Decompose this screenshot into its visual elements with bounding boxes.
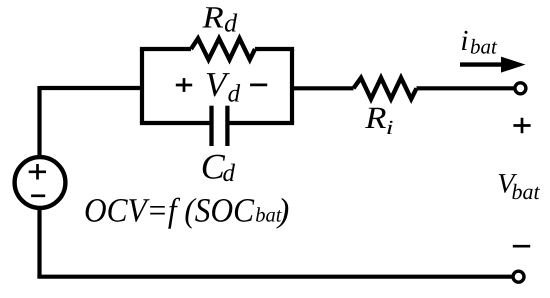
wire left vertical lower (source bottom to bottom rail) (37, 208, 41, 277)
voltage source circle (15, 157, 66, 208)
wire left vertical upper (rail down to source top) (37, 86, 41, 158)
svg-text:i: i (386, 117, 394, 139)
svg-text:V: V (205, 65, 230, 104)
positive terminal circle (515, 83, 526, 94)
label plus of Vd (176, 78, 192, 92)
svg-text:d: d (228, 81, 241, 108)
label minus of Vd (250, 84, 267, 87)
RC box left edge wire (140, 49, 144, 123)
negative terminal circle (513, 271, 524, 282)
wire box top-left segment (140, 47, 191, 51)
resistor Rd zigzag (191, 38, 255, 59)
svg-text:bat: bat (512, 179, 541, 204)
wire top-left horizontal (source top to RC box) (40, 86, 143, 90)
voltage source minus sign (31, 194, 45, 197)
svg-text:d: d (223, 160, 236, 187)
capacitor Cd left plate (209, 106, 213, 146)
resistor Ri zigzag (354, 78, 417, 99)
wire bottom rail (37, 275, 512, 279)
wire box bottom-left segment (140, 121, 210, 125)
wire Ri to positive terminal (417, 86, 514, 90)
svg-text:OCV=f (SOC: OCV=f (SOC (84, 193, 254, 230)
svg-text:): ) (276, 193, 289, 230)
current arrow i_bat (460, 62, 503, 66)
svg-text:i: i (460, 25, 468, 57)
wire box bottom-right segment (229, 121, 294, 125)
RC box right edge wire (290, 49, 294, 123)
label plus at battery terminal (513, 118, 530, 133)
voltage source plus sign (29, 164, 46, 180)
svg-text:d: d (224, 9, 238, 38)
label minus at battery terminal (513, 245, 530, 248)
svg-text:bat: bat (470, 34, 498, 58)
svg-text:R: R (201, 0, 223, 34)
svg-text:R: R (364, 100, 386, 135)
wire box top-right segment (255, 47, 294, 51)
capacitor Cd right plate (225, 106, 229, 146)
wire right rail (box to Ri) (292, 86, 354, 90)
